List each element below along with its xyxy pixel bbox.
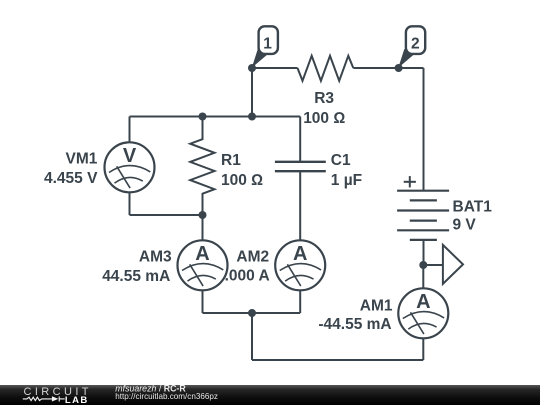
svg-text:BAT1: BAT1 [453,198,493,215]
svg-text:A: A [293,243,307,265]
svg-text:100 Ω: 100 Ω [221,172,263,189]
svg-text:44.55 mA: 44.55 mA [102,268,170,285]
svg-text:1: 1 [263,35,272,52]
svg-text:2: 2 [411,35,420,52]
svg-text:4.455 V: 4.455 V [44,170,98,187]
svg-text:AM1: AM1 [360,298,393,315]
svg-text:A: A [416,291,430,313]
svg-text:.000 A: .000 A [225,267,270,284]
svg-text:-44.55 mA: -44.55 mA [318,316,391,333]
svg-text:AM2: AM2 [236,249,269,266]
svg-text:A: A [195,243,209,265]
svg-text:R1: R1 [221,152,241,169]
svg-text:100 Ω: 100 Ω [303,110,345,127]
svg-text:LAB: LAB [65,395,89,405]
svg-text:http://circuitlab.com/cn366pz: http://circuitlab.com/cn366pz [115,392,218,401]
svg-text:9 V: 9 V [453,216,477,233]
svg-text:R3: R3 [314,90,334,107]
svg-text:VM1: VM1 [66,151,98,168]
svg-text:V: V [123,145,137,167]
svg-text:1 µF: 1 µF [331,172,362,189]
svg-text:C1: C1 [331,152,351,169]
svg-text:AM3: AM3 [139,248,172,265]
